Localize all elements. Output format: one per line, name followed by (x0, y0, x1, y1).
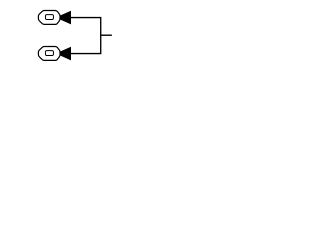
speaker SP2 inner ring (45, 51, 53, 56)
arrow A2 (filled triangle pointing left, apex tucked behind speaker body) (56, 47, 71, 61)
speaker SP2 outer shell (white fill covers arrow apex) (38, 47, 60, 61)
wire stub to common node (101, 34, 112, 36)
background (0, 0, 150, 72)
speaker SP1 inner ring (45, 15, 53, 20)
speaker SP1 outer shell (white fill covers arrow apex) (38, 11, 60, 25)
wire: top lead W1, right vertical bus, bottom lead W2 (71, 18, 101, 54)
arrow A1 (filled triangle pointing left, apex tucked behind speaker body) (56, 11, 71, 25)
